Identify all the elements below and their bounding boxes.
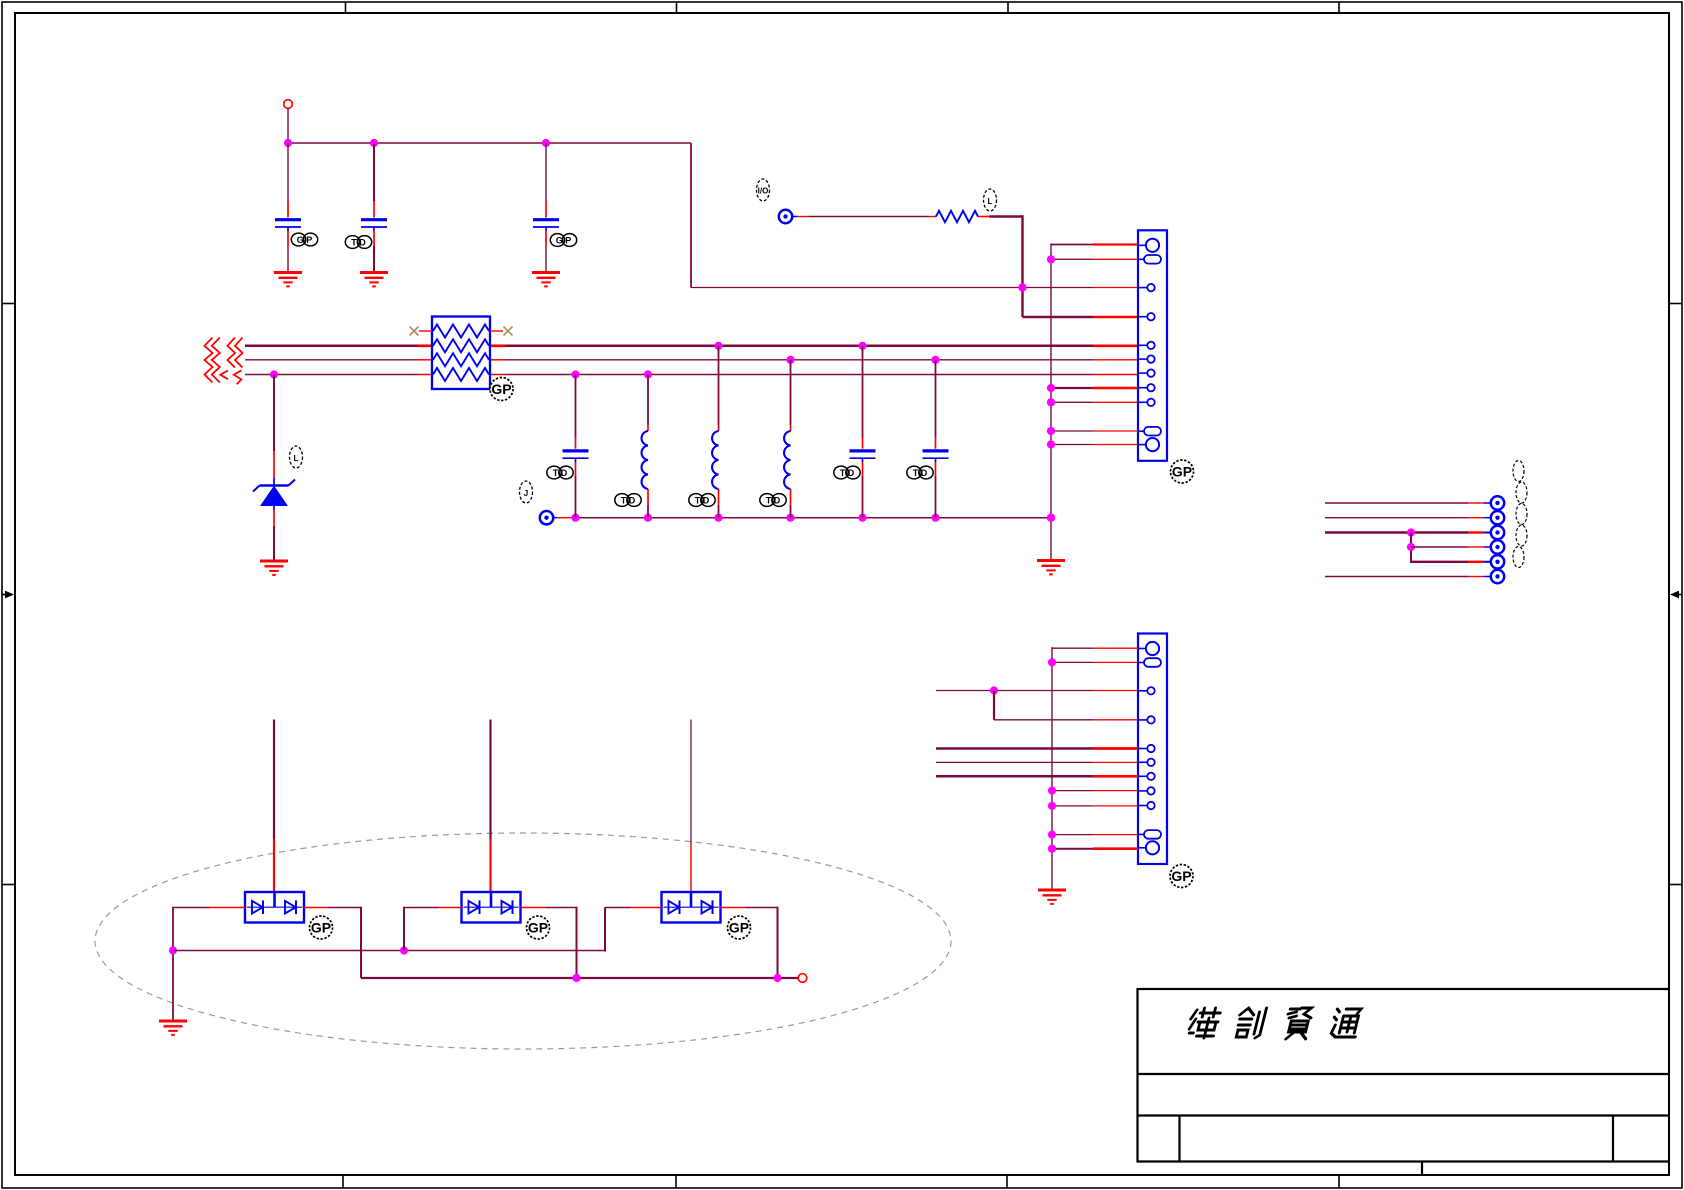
- junction rail pin11: [1047, 440, 1055, 448]
- capacitor C5: [850, 346, 876, 518]
- pin stub red RP1 pin4 right: [490, 374, 505, 376]
- junction rail pin2: [1047, 255, 1055, 263]
- no-connect X RP1 pin1 left: [410, 327, 419, 336]
- header CN1 terminal 3: [1491, 526, 1504, 539]
- junction top bus B: [370, 139, 378, 147]
- junction D1 ground node: [169, 946, 177, 954]
- wire J2 pin5 (thick bus): [936, 747, 1138, 750]
- junction rail J2 pin2: [1048, 658, 1056, 666]
- wire top power bus: [288, 142, 691, 144]
- header CN1 terminal 4: [1491, 540, 1504, 553]
- wire T1 to R1: [793, 216, 937, 218]
- ground below DZ1: [260, 561, 288, 575]
- svg-text:T\D: T\D: [913, 468, 928, 478]
- wire zener to ground: [273, 510, 275, 560]
- header CN1 terminal 6: [1491, 570, 1504, 583]
- attribute flag I/O of terminal T1: [757, 179, 770, 201]
- junction bus2 / L3: [786, 356, 794, 364]
- wire J2 pin1: [1052, 647, 1138, 649]
- wire D2 left drop: [404, 907, 462, 951]
- off-sheet torn-edge symbol (red zigzags): [205, 338, 243, 385]
- attribute flag T/D of C6: [907, 466, 933, 479]
- wire J1 pin10: [1051, 430, 1138, 432]
- pin stub red RP1 pin4 left: [417, 374, 432, 376]
- dual diode D1: [245, 892, 304, 923]
- junction LC bus C5: [858, 514, 866, 522]
- wire J2 pin8: [1052, 790, 1138, 792]
- zener diode DZ1: [253, 480, 295, 511]
- wire CN1 pin1: [1325, 502, 1491, 504]
- connector J2: [1138, 634, 1167, 865]
- pin stub red RP1 pin3 right: [490, 359, 505, 361]
- junction rail J2 pin9: [1048, 802, 1056, 810]
- header CN1 terminal 1: [1491, 496, 1504, 509]
- junction LC bus / J1 rail (top stamp): [1047, 514, 1055, 522]
- flag GP of D2: [527, 916, 550, 939]
- ground of diode array: [159, 1021, 187, 1035]
- attribute flag G/P of C3: [550, 234, 576, 247]
- pin stub red RP1 pin2 left: [417, 344, 432, 347]
- inductor L3: [784, 360, 790, 518]
- junction CN1 pin4 tap: [1407, 543, 1415, 551]
- pin stub red J1 pin5: [1093, 344, 1138, 347]
- dual diode D3: [662, 892, 721, 923]
- ground below J1 rail: [1037, 561, 1065, 575]
- node output terminal (open circle): [798, 974, 807, 983]
- wire J2 pin4 branch: [994, 691, 1138, 720]
- svg-text:G/P: G/P: [297, 235, 313, 245]
- node VCC input terminal: [284, 100, 293, 109]
- attribute flag L of zener: [290, 446, 303, 468]
- svg-text:L: L: [294, 454, 299, 463]
- wire J1 pin9: [1051, 401, 1138, 403]
- flag GP of J2: [1170, 865, 1193, 888]
- wire R1 to J1 pin4: [978, 215, 1138, 317]
- wire CN1 pin6: [1325, 576, 1491, 578]
- pin stub red J1 pin7: [1093, 374, 1138, 376]
- wire to connector J1 pin3: [691, 287, 1093, 289]
- wire J2 pin2: [1052, 661, 1138, 663]
- junction bus1 / C5: [858, 342, 866, 350]
- junction pin3 wire (top stamp): [1018, 283, 1026, 291]
- wire D2 right drop: [521, 907, 577, 978]
- wire J2 pin6: [936, 761, 1138, 763]
- capacitor C4: [563, 375, 589, 518]
- junction rail pin8: [1047, 384, 1055, 392]
- wire zener branch: [273, 375, 275, 486]
- inductor L2: [712, 346, 718, 518]
- wire bus1 left segment: [245, 345, 417, 348]
- wire J2 ground rail: [1051, 647, 1053, 889]
- attribute flag G/P of C1: [291, 233, 317, 246]
- junction bus3 / C4: [571, 370, 579, 378]
- junction J2 pin3 branch: [990, 686, 998, 694]
- wire return bus upper: [173, 950, 605, 952]
- flag GP of RP1: [490, 378, 513, 401]
- wire CN1 pin5 (thick): [1410, 561, 1491, 563]
- svg-text:T\D: T\D: [766, 496, 781, 506]
- junction rail J2 pin11: [1048, 845, 1056, 853]
- ground below C1: [274, 273, 302, 287]
- connector J1: [1138, 230, 1167, 460]
- wire J2 pin7 (thick bus): [936, 775, 1138, 778]
- ground below J2 rail: [1038, 890, 1066, 904]
- junction bus2 / C6: [931, 356, 939, 364]
- junction bus3 / zener: [270, 370, 278, 378]
- pin stub red J1 pin3: [1093, 287, 1138, 289]
- attribute flag T/D of C4: [547, 466, 573, 479]
- attribute flag T/D of L1: [615, 494, 641, 507]
- junction rail J2 pin8: [1048, 787, 1056, 795]
- junction LC bus L2: [714, 514, 722, 522]
- wire bottom LC bus: [573, 517, 1051, 519]
- junction lower bus / D2 right: [572, 974, 580, 982]
- pin stub red RP1 pin1 left (nc): [419, 330, 432, 332]
- pin stub red RP1 pin2 right: [490, 344, 505, 347]
- terminal T2: [540, 511, 553, 524]
- flag GP of D1: [310, 916, 333, 939]
- junction top bus C: [542, 139, 550, 147]
- junction LC bus L3: [786, 514, 794, 522]
- wire bus3 left segment: [245, 374, 417, 376]
- junction bus3 / L1: [644, 370, 652, 378]
- wire CN1 pin4: [1411, 546, 1491, 548]
- wire D3 top: [690, 720, 692, 893]
- wire J2 pin10: [1052, 834, 1138, 836]
- wire J1 pin11: [1051, 444, 1138, 446]
- wire J1 ground rail: [1050, 243, 1052, 559]
- junction CN1 branch: [1407, 528, 1415, 536]
- attribute flag J of terminal T2: [520, 481, 533, 503]
- attribute flag T/D of L3: [760, 494, 786, 507]
- TITLEBLOCK: [1137, 989, 1670, 1175]
- wire bus2 left segment: [245, 359, 417, 361]
- wire VCC vertical: [287, 109, 289, 144]
- capacitor C3: [533, 143, 559, 272]
- wire bus1 right segment to J1 pin5: [505, 345, 1093, 348]
- svg-text:J: J: [524, 489, 528, 498]
- wire D1 top: [273, 720, 275, 893]
- svg-text:T\D: T\D: [840, 468, 855, 478]
- wire return bus lower to output: [361, 977, 798, 979]
- svg-text:I/O: I/O: [758, 187, 769, 196]
- svg-text:T\D: T\D: [695, 496, 710, 506]
- wire CN1 pin2: [1325, 517, 1491, 519]
- attribute flag T/D of C2: [345, 236, 371, 249]
- junction rail J2 pin10: [1048, 831, 1056, 839]
- wire bus2 right segment to J1 pin6: [505, 359, 1093, 361]
- inductor L1: [642, 375, 648, 518]
- capacitor C2: [361, 143, 387, 272]
- wire bus3 right segment to J1 pin7: [505, 374, 1093, 376]
- wire D1 right drop: [304, 907, 361, 978]
- wire J2 pin3: [936, 690, 1138, 692]
- wire CN1 branch vertical: [1410, 533, 1412, 562]
- svg-text:G/P: G/P: [556, 236, 572, 246]
- wire CN1 pin3 (thick): [1325, 532, 1491, 534]
- header CN1 terminal 2: [1491, 511, 1504, 524]
- wire D2 top: [489, 720, 491, 893]
- header CN1 terminal 5: [1491, 555, 1504, 568]
- pin stub red J1 pin6: [1093, 359, 1138, 361]
- junction LC bus L1: [644, 514, 652, 522]
- terminal T1: [779, 210, 792, 223]
- wire J2 pin9: [1052, 805, 1138, 807]
- wire J2 pin11: [1052, 848, 1138, 850]
- dual diode D2: [462, 892, 521, 923]
- wire J1 pin8: [1051, 387, 1138, 389]
- wire T2 stub: [554, 517, 574, 519]
- ground below C3: [532, 273, 560, 287]
- resistor R1: [936, 211, 978, 222]
- junction bus1 / L2: [714, 342, 722, 350]
- junction LC bus C4: [571, 514, 579, 522]
- protection-circuit dashed ellipse: [95, 833, 951, 1049]
- junction LC bus to J1 ground rail: [1047, 514, 1055, 522]
- capacitor C1: [275, 143, 301, 272]
- junction on pin3 wire: [1018, 283, 1026, 291]
- pin stub red RP1 pin3 left: [417, 359, 432, 361]
- company logo text (stylized CJK strokes): [1186, 1008, 1362, 1039]
- svg-text:T\D: T\D: [621, 496, 636, 506]
- svg-text:T\D: T\D: [351, 238, 366, 248]
- wire J1 pin2: [1051, 258, 1138, 260]
- wire top bus corner down: [690, 143, 692, 288]
- capacitor C6: [923, 360, 949, 518]
- attribute flag T/D of L2: [689, 494, 715, 507]
- flag GP of D3: [728, 916, 751, 939]
- junction LC bus C6: [931, 514, 939, 522]
- ground below C2: [360, 273, 388, 287]
- svg-text:T\D: T\D: [553, 468, 568, 478]
- wire J1 pin1: [1051, 244, 1138, 246]
- junction top bus A: [284, 139, 292, 147]
- attribute flag T/D of C5: [834, 466, 860, 479]
- no-connect X RP1 pin1 right: [504, 327, 513, 336]
- resistor pack RP1: [432, 317, 490, 390]
- junction rail pin10: [1047, 427, 1055, 435]
- wire D3 right drop: [721, 907, 778, 978]
- wire riser to D3 left: [605, 908, 662, 952]
- pin stub red RP1 pin1 right (nc): [490, 330, 503, 332]
- flag GP of J1: [1171, 460, 1194, 483]
- junction rail pin9: [1047, 398, 1055, 406]
- attribute flag stack of CN1: [1513, 461, 1527, 568]
- junction return bus / D2 left: [400, 946, 408, 954]
- attribute flag L of R1: [984, 189, 997, 211]
- wire D1 left to ground branch: [173, 907, 245, 1020]
- svg-text:L: L: [988, 197, 993, 206]
- junction lower bus / D3 right: [773, 974, 781, 982]
